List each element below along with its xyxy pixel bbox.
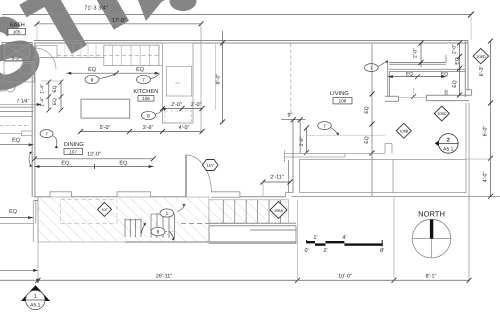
svg-text:2'-6": 2'-6" — [299, 136, 305, 146]
LIVING label — [330, 91, 349, 97]
dashed opening rectangle in hatch — [61, 200, 118, 224]
KITCHEN label — [133, 89, 158, 95]
svg-text:2'-0": 2'-0" — [413, 48, 419, 58]
extension line x=201 long — [200, 25, 202, 131]
left wall below window wall — [32, 201, 34, 243]
dim 9" — [281, 112, 306, 122]
watermark letter fragment U bottom — [170, 0, 197, 11]
peninsula counter — [104, 45, 159, 65]
svg-text:6'-0": 6'-0" — [483, 126, 489, 137]
cabinet dividers — [65, 43, 96, 58]
svg-text:1': 1' — [313, 235, 317, 241]
svg-text:EQ: EQ — [136, 67, 144, 73]
svg-text:108D: 108D — [476, 54, 486, 59]
svg-text:EQ.: EQ. — [119, 161, 128, 167]
svg-text:10'-0": 10'-0" — [338, 273, 352, 279]
wall below upper stair — [209, 223, 296, 226]
right kitchen cabinets / fridge column — [163, 43, 194, 123]
svg-text:7: 7 — [370, 66, 373, 72]
tub / shower with X — [2, 43, 32, 62]
svg-text:1'-4": 1'-4" — [40, 97, 46, 107]
svg-text:4'-0": 4'-0" — [483, 172, 489, 183]
svg-text:EQ: EQ — [52, 85, 58, 92]
svg-text:1'-4": 1'-4" — [40, 84, 46, 94]
svg-text:106: 106 — [142, 96, 150, 101]
stair up arrow curved — [141, 223, 146, 234]
oval tag 7 living top — [365, 60, 389, 71]
dimension line 17'-0" — [35, 18, 204, 27]
oval tag 1 stairs — [160, 204, 186, 217]
section marker 1/A5.1 bottom — [21, 285, 50, 309]
bath south wall + buffet left — [0, 107, 34, 125]
oval tag 9 — [85, 74, 116, 84]
svg-text:7: 7 — [142, 78, 145, 84]
windows in wall — [50, 192, 240, 197]
left lines lower — [0, 223, 34, 225]
vertical dim 8'-0" — [216, 31, 226, 125]
extension verticals bottom — [37, 197, 39, 283]
bottom dims — [0, 273, 472, 283]
right wall upper vertical — [465, 41, 468, 98]
left bottom aux line — [0, 269, 40, 284]
bath door arc — [35, 48, 56, 69]
kitchen bottom dims 5'-0" 3'-6" 4'-0" — [78, 125, 205, 134]
svg-text:EQ: EQ — [9, 209, 17, 215]
watermark STRU diagonal — [0, 0, 314, 114]
section marker 2/A5.1 — [435, 134, 458, 154]
room tag 107 — [64, 148, 83, 154]
svg-text:6'-3": 6'-3" — [479, 66, 485, 77]
right hall wall with opening — [385, 88, 472, 101]
svg-text:26'-11": 26'-11" — [156, 273, 172, 279]
kitchen counter along top wall — [34, 46, 104, 58]
svg-text:108C: 108C — [437, 111, 447, 116]
door leaf and arc — [186, 155, 211, 197]
svg-text:2'-11": 2'-11" — [270, 175, 283, 181]
dim 2'-0" vertical left col — [413, 41, 424, 68]
svg-text:7: 7 — [45, 132, 48, 138]
svg-text:2'-0": 2'-0" — [452, 44, 458, 54]
dimension line 71'-3 3/4" — [2, 5, 474, 18]
EQ EQ horizontal right — [388, 71, 448, 79]
svg-text:EQ: EQ — [88, 67, 96, 73]
diamond keynote 108C — [434, 106, 449, 121]
stair down arrow — [170, 232, 175, 241]
right edge building line — [468, 103, 470, 281]
diamond keynote 108D — [473, 48, 489, 63]
svg-text:EQ.: EQ. — [61, 161, 70, 167]
svg-text:107: 107 — [207, 163, 215, 168]
svg-text:9": 9" — [288, 112, 293, 118]
svg-text:EQ: EQ — [364, 136, 370, 143]
living west wall segment 9" — [285, 120, 301, 197]
vanity — [4, 62, 34, 83]
oval tag 7 dining — [40, 130, 58, 149]
oval tag 8 stairs — [151, 227, 173, 235]
counter section right of peninsula — [159, 43, 216, 110]
dim 2'-6" vertical — [299, 126, 386, 155]
dim col right 2'-0 EQ EQ — [452, 41, 463, 98]
svg-text:1: 1 — [165, 211, 168, 217]
svg-text:108B: 108B — [399, 129, 409, 134]
toilet — [1, 78, 16, 92]
left dim cluster verticals — [40, 80, 64, 113]
upper stair treads — [223, 200, 280, 224]
oval tag 8 kitchen — [142, 108, 167, 120]
svg-text:BATH: BATH — [10, 23, 25, 29]
svg-text:107: 107 — [101, 208, 107, 212]
svg-text:8'-1": 8'-1" — [426, 273, 437, 279]
room tag 108 — [333, 98, 352, 104]
svg-text:2: 2 — [447, 138, 450, 144]
svg-text:KITCHEN: KITCHEN — [133, 89, 158, 95]
svg-text:8: 8 — [157, 230, 160, 236]
svg-text:2'-0": 2'-0" — [191, 102, 202, 108]
svg-text:EQ: EQ — [441, 71, 448, 77]
svg-text:71'-3 3/4": 71'-3 3/4" — [84, 5, 108, 12]
left EQ dim lower — [0, 209, 33, 219]
beam dashed line living — [290, 44, 292, 114]
svg-text:2': 2' — [323, 248, 327, 254]
svg-text:NORTH: NORTH — [418, 210, 445, 219]
dim 2'-0" 2'-0" kitchen — [160, 102, 205, 111]
svg-text:5'-0": 5'-0" — [100, 125, 111, 131]
door opening dining — [186, 191, 211, 202]
extension line x=37 — [36, 25, 38, 41]
DINING label — [64, 142, 84, 148]
svg-text:3'-0": 3'-0" — [12, 56, 21, 61]
NORTH arrow — [412, 210, 451, 258]
dashed break line — [181, 223, 242, 225]
svg-text:4'-0": 4'-0" — [179, 125, 190, 131]
svg-text:108: 108 — [339, 99, 347, 104]
island — [81, 99, 130, 118]
svg-text:107: 107 — [69, 149, 77, 154]
extension y=159 — [466, 158, 491, 160]
left wall of house (bath right wall) — [32, 43, 35, 197]
svg-text:8'-0": 8'-0" — [216, 74, 222, 85]
BATH label — [10, 23, 25, 29]
extension line x=471 — [470, 15, 472, 40]
svg-text:A5.1: A5.1 — [443, 147, 454, 153]
svg-text:0': 0' — [305, 248, 309, 254]
vertical EQ dim x=372 — [364, 44, 375, 196]
diamond keynote 108B — [396, 123, 411, 138]
svg-text:EQ: EQ — [452, 80, 458, 87]
svg-text:A5.1: A5.1 — [30, 303, 41, 309]
window wall bottom (dining) — [34, 197, 286, 201]
hearth bench — [285, 144, 393, 158]
dim 2'-11" — [261, 175, 293, 197]
svg-text:EQ: EQ — [52, 98, 58, 105]
diamond keynote 108A — [270, 202, 287, 219]
hexagon tag 107 door — [203, 160, 219, 171]
svg-text:105: 105 — [13, 30, 21, 35]
svg-text:9: 9 — [91, 78, 94, 84]
scale bar — [305, 235, 385, 254]
hatched floor area main — [38, 197, 289, 242]
svg-text:12'-0": 12'-0" — [87, 152, 101, 158]
left EQ dim upper — [0, 131, 34, 167]
svg-text:3'-6": 3'-6" — [143, 125, 154, 131]
dim 12'-0" — [32, 152, 156, 162]
svg-text:EQ: EQ — [455, 57, 461, 64]
svg-text:DINING: DINING — [64, 142, 84, 148]
room tag 106 — [138, 96, 154, 102]
south line right — [292, 195, 500, 197]
svg-text:LIVING: LIVING — [330, 91, 349, 97]
svg-text:2'-0": 2'-0" — [171, 102, 182, 108]
svg-text:7: 7 — [323, 124, 326, 130]
step walls below stairs right — [209, 226, 296, 244]
svg-text:EQ: EQ — [12, 137, 20, 143]
stair flight 2 — [125, 214, 296, 242]
svg-text:1: 1 — [34, 294, 37, 300]
svg-text:4': 4' — [342, 235, 346, 241]
7 1/4" text — [0, 99, 42, 107]
svg-text:8: 8 — [147, 114, 150, 120]
dim EQ EQ dining — [35, 161, 154, 169]
stair lower flight 1 — [125, 219, 141, 238]
EQ dim kitchen top — [67, 67, 160, 76]
right dim column 6'-3" 6'-0" 4'-0" — [479, 39, 493, 199]
svg-text:EQ: EQ — [406, 71, 413, 77]
svg-text:17'-0": 17'-0" — [112, 18, 126, 24]
svg-text:108A: 108A — [274, 208, 284, 213]
svg-text:8': 8' — [380, 248, 384, 254]
right interior niche walls — [388, 55, 466, 96]
room tag 105 — [8, 29, 26, 35]
oval tag 7 kitchen — [137, 74, 160, 84]
diamond keynote 107 — [98, 202, 112, 216]
svg-text:7 1/4": 7 1/4" — [17, 99, 30, 105]
watermark letter fragment R-leg tip — [138, 0, 163, 21]
top wall — [34, 41, 468, 44]
upper cabinets dashed — [57, 54, 159, 56]
sunken living rect — [300, 160, 467, 193]
svg-text:EQ: EQ — [364, 106, 370, 113]
oval tag 7 living left — [318, 122, 340, 136]
